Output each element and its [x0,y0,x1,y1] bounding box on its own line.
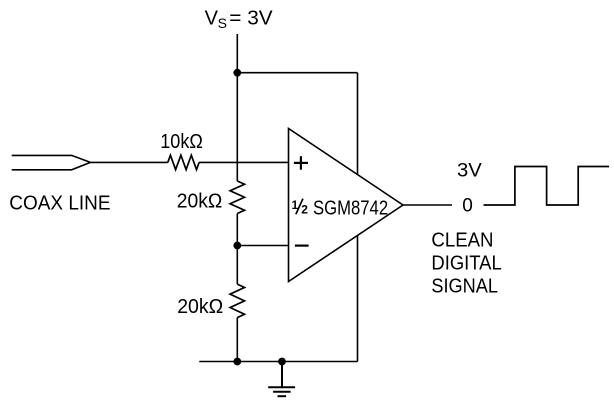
svg-text:V: V [205,8,219,30]
svg-text:COAX LINE: COAX LINE [9,192,110,214]
node bottom rail ground [278,358,286,366]
wire lower resistor to bottom rail [236,318,238,362]
wire bottom rail [199,361,357,363]
wire top horizontal to right branch [237,72,357,74]
svg-text:CLEAN: CLEAN [431,230,493,252]
square wave output waveform [484,167,610,206]
wire to op-amp - input [237,245,288,247]
svg-text:20kΩ: 20kΩ [177,191,223,213]
op-amp U1 triangle [289,129,404,282]
node bottom rail left [233,358,241,366]
op-amp + input marker [294,156,308,170]
svg-text:S: S [218,15,227,31]
resistor 20k lower [230,284,244,318]
svg-text:= 3V: = 3V [229,8,273,30]
coax line symbol [12,155,91,169]
wire between resistors [236,214,238,285]
node supply junction [233,69,241,77]
label VS = 3V [205,8,274,31]
label 1/2 fraction [292,198,309,217]
svg-text:0: 0 [462,195,473,216]
resistor 20k upper [230,181,244,214]
svg-text:10kΩ: 10kΩ [160,131,203,153]
ground [268,362,295,397]
wire input from coax to resistor [90,161,167,163]
svg-text:3V: 3V [457,160,482,181]
op-amp - input marker [295,245,309,247]
resistor 10k [168,155,199,169]
svg-text:SGM8742: SGM8742 [313,197,388,219]
svg-text:2: 2 [301,203,308,217]
svg-text:20kΩ: 20kΩ [177,296,223,318]
node divider midpoint [233,242,241,250]
svg-text:SIGNAL: SIGNAL [431,276,498,298]
wire right vertical branch [357,73,359,362]
wire resistor to op-amp + input [199,161,288,163]
wire VS supply vertical upper [236,34,238,181]
svg-text:DIGITAL: DIGITAL [431,253,501,275]
wire op-amp output [403,204,452,206]
